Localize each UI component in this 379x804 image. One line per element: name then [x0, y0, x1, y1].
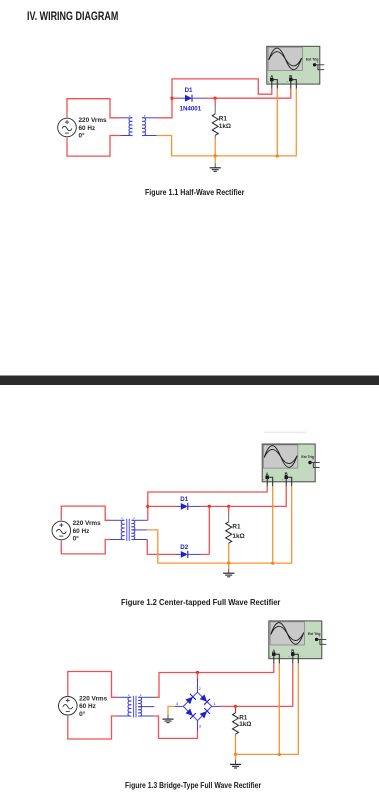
wire: node down to bridge pin 2	[197, 673, 199, 682]
diode D2	[176, 544, 202, 558]
AC source V2 220Vrms 60Hz	[52, 518, 101, 543]
svg-text:-: -	[279, 80, 280, 84]
node: R1/ground junction on bus	[234, 753, 237, 756]
svg-text:220 Vrms: 220 Vrms	[73, 520, 102, 527]
svg-text:1: 1	[214, 702, 216, 706]
wire: T3 primary top lead (blue)	[117, 696, 130, 698]
page separator band	[0, 376, 379, 386]
svg-text:0°: 0°	[79, 710, 86, 718]
svg-text:0°: 0°	[73, 535, 80, 543]
channel B terminals of XSC3	[291, 653, 294, 656]
wire: T2 secondary bottom lead (blue)	[133, 539, 147, 541]
svg-text:D1: D1	[185, 87, 193, 94]
svg-text:1kΩ: 1kΩ	[232, 533, 244, 540]
wire: bus up to scope A-	[272, 486, 274, 563]
svg-text:1kΩ: 1kΩ	[239, 721, 251, 728]
wire: node to scope B+	[236, 663, 293, 706]
wire: R1 top	[235, 706, 237, 713]
wire: diode D1 cathode to node B	[206, 97, 215, 99]
channel A terminals of XSC2	[266, 476, 269, 479]
oscilloscope XSC1	[267, 46, 325, 88]
wire: T3 primary bottom lead (blue)	[117, 715, 130, 717]
ext-trig pin of XSC2	[308, 461, 311, 464]
wire: T2 primary bottom lead (blue)	[110, 539, 123, 541]
wire: bridge pin 1 to R1 node	[221, 705, 236, 707]
svg-text:220 Vrms: 220 Vrms	[79, 696, 108, 703]
svg-text:-: -	[294, 477, 295, 481]
wire: secondary top up to scope A rail	[148, 486, 267, 520]
node: junction secondary/diode branch	[170, 97, 173, 100]
svg-text:+: +	[282, 477, 284, 481]
wire: junction to diode D1	[148, 505, 176, 507]
AC source V3 220Vrms 60Hz	[59, 693, 108, 718]
svg-text:1N4001: 1N4001	[180, 106, 202, 113]
wire: T3 center tap stub (blue, unconnected)	[140, 706, 155, 708]
ground	[210, 163, 221, 171]
wire: D1 cathode to output node	[202, 505, 229, 507]
faint rule artifact	[264, 431, 306, 433]
wire: T2 primary top lead (blue)	[110, 519, 123, 521]
wire: source V3 to transformer T3 primary (bottom)	[68, 716, 117, 740]
node: bridge top junction	[196, 671, 199, 674]
svg-text:2: 2	[199, 687, 201, 691]
wire: secondary bottom to ground bus (orange)	[157, 89, 297, 156]
wire: resistor R1 bottom to ground bus (orange)	[214, 139, 216, 156]
svg-text:60 Hz: 60 Hz	[79, 703, 96, 710]
wire: R1 top	[228, 506, 230, 513]
transformer T2	[121, 518, 135, 542]
resistor R1 1k&#937;	[233, 708, 252, 738]
svg-text:1kΩ: 1kΩ	[219, 123, 231, 130]
wire: ground bus to scope B- (orange)	[236, 663, 299, 754]
ext-trig pin of XSC3	[315, 638, 318, 641]
svg-text:220 Vrms: 220 Vrms	[79, 117, 108, 124]
node: D1 output / R1 top junction	[214, 97, 217, 100]
svg-text:+: +	[269, 654, 271, 658]
wire: source V1 to transformer T1 primary (bottom)	[67, 136, 121, 157]
svg-text:-: -	[319, 641, 320, 644]
wire: bus up to scope A-	[278, 663, 280, 754]
node: R1/ground junction on bus	[227, 562, 230, 565]
AC source V1 220Vrms 60Hz	[58, 115, 107, 140]
svg-text:R1: R1	[219, 115, 228, 122]
svg-text:D1: D1	[180, 496, 188, 503]
node: scope A- junction on bus	[278, 753, 281, 756]
bridge diode bottom-left (points to pin 3)	[186, 709, 193, 716]
resistor R1 1k&#937;	[226, 513, 245, 547]
svg-text:60 Hz: 60 Hz	[73, 528, 90, 535]
bridge diode top-right (points to pin 1)	[200, 694, 207, 701]
wire: T3 secondary bottom lead (blue)	[140, 715, 154, 717]
wire: transformer T1 secondary bottom lead (blue)	[142, 135, 156, 137]
transformer T3	[128, 695, 142, 718]
wire: ground stub	[228, 563, 230, 569]
wire: source V2 to transformer T2 primary (bottom)	[61, 540, 110, 554]
wire: R1 bottom to bus (orange)	[228, 544, 230, 563]
channel B terminals of XSC2	[285, 476, 288, 479]
oscilloscope XSC2	[262, 444, 320, 486]
channel B terminals of XSC1	[289, 78, 292, 81]
diode D1	[180, 87, 207, 113]
ground	[223, 569, 234, 577]
ground	[230, 760, 241, 768]
svg-text:-: -	[275, 477, 276, 481]
bridge diode bottom-right (points to pin 1)	[200, 711, 207, 718]
svg-text:-: -	[312, 465, 313, 468]
node: junction secondary top / D1 branch	[146, 505, 149, 508]
wire: bridge pin 4 to ground (orange)	[168, 706, 175, 714]
caption: Figure 1.2	[121, 598, 280, 607]
svg-text:D2: D2	[180, 544, 188, 551]
svg-text:-: -	[300, 654, 301, 658]
svg-text:+: +	[267, 80, 269, 84]
bridge rectifier D1 (4 diodes)	[175, 678, 221, 731]
svg-text:R1: R1	[232, 524, 241, 531]
wire: D2 cathode to junction	[202, 553, 210, 555]
svg-text:+: +	[286, 80, 288, 84]
wire: ground stub below bus	[235, 754, 237, 759]
svg-text:+: +	[263, 477, 265, 481]
bridge diode top-left (points to pin 2)	[186, 697, 193, 704]
wire: output node to scope B+	[229, 486, 287, 506]
wire: secondary top up to bridge/scope rail	[155, 663, 273, 697]
wire: source V1 to transformer T1 primary (top)	[67, 99, 121, 118]
svg-text:4: 4	[176, 702, 178, 706]
wire: secondary top to node, up to scope A rail	[157, 79, 272, 118]
channel A terminals of XSC1	[270, 78, 273, 81]
wire: center tap to ground bus (orange)	[147, 486, 291, 563]
wire: transformer T1 secondary top lead (blue)	[142, 117, 156, 119]
heading: IV. WIRING DIAGRAM	[27, 9, 118, 23]
svg-text:-: -	[298, 80, 299, 84]
wire: D2 up to D1 row	[208, 506, 210, 554]
wire: bus up to scope A-	[276, 89, 278, 156]
diode D1	[176, 496, 202, 510]
caption: Figure 1.1	[145, 188, 244, 197]
oscilloscope XSC3	[269, 621, 327, 663]
node: D1/D2 cathode junction	[208, 505, 211, 508]
transformer T1	[129, 115, 146, 135]
wire: node to scope channel B+	[215, 89, 291, 99]
wire: transformer T1 primary lead bottom (blue)	[121, 135, 133, 137]
node: scope A- junction on bus	[276, 154, 279, 157]
svg-text:3: 3	[199, 725, 201, 729]
svg-text:-: -	[317, 67, 318, 70]
wire: secondary bottom to bridge pin 3	[153, 716, 197, 738]
wire: node down to resistor R1	[214, 98, 216, 105]
node: bridge output / R1 junction	[234, 705, 237, 708]
svg-text:-: -	[281, 654, 282, 658]
wire: source V2 to transformer T2 primary (top)	[61, 506, 110, 520]
node: output node to R1	[227, 505, 230, 508]
wire: T2 secondary top lead (blue)	[133, 519, 148, 521]
ground	[162, 715, 173, 723]
wire: transformer T1 primary lead top (blue)	[121, 117, 133, 119]
channel A terminals of XSC3	[272, 653, 275, 656]
node: scope A- junction on bus	[271, 562, 274, 565]
wire: junction to diode D1 anode	[172, 97, 180, 99]
node: ground junction on bus	[214, 154, 217, 157]
resistor R1 1k&#937;	[212, 105, 231, 139]
svg-text:0°: 0°	[79, 132, 86, 140]
svg-text:+: +	[288, 654, 290, 658]
wire: T2 center tap lead (blue)	[133, 529, 147, 531]
wire: T3 secondary top lead (blue)	[140, 696, 156, 698]
svg-text:60 Hz: 60 Hz	[79, 125, 96, 132]
wire: R1 bottom to bus (orange)	[235, 735, 237, 754]
wire: secondary bottom down to diode D2	[147, 540, 176, 555]
wire: ground stub	[214, 156, 216, 163]
caption: Figure 1.3	[125, 781, 261, 790]
ext-trig pin of XSC1	[313, 63, 316, 66]
wire: source V3 to transformer T3 primary (top)	[68, 672, 117, 698]
